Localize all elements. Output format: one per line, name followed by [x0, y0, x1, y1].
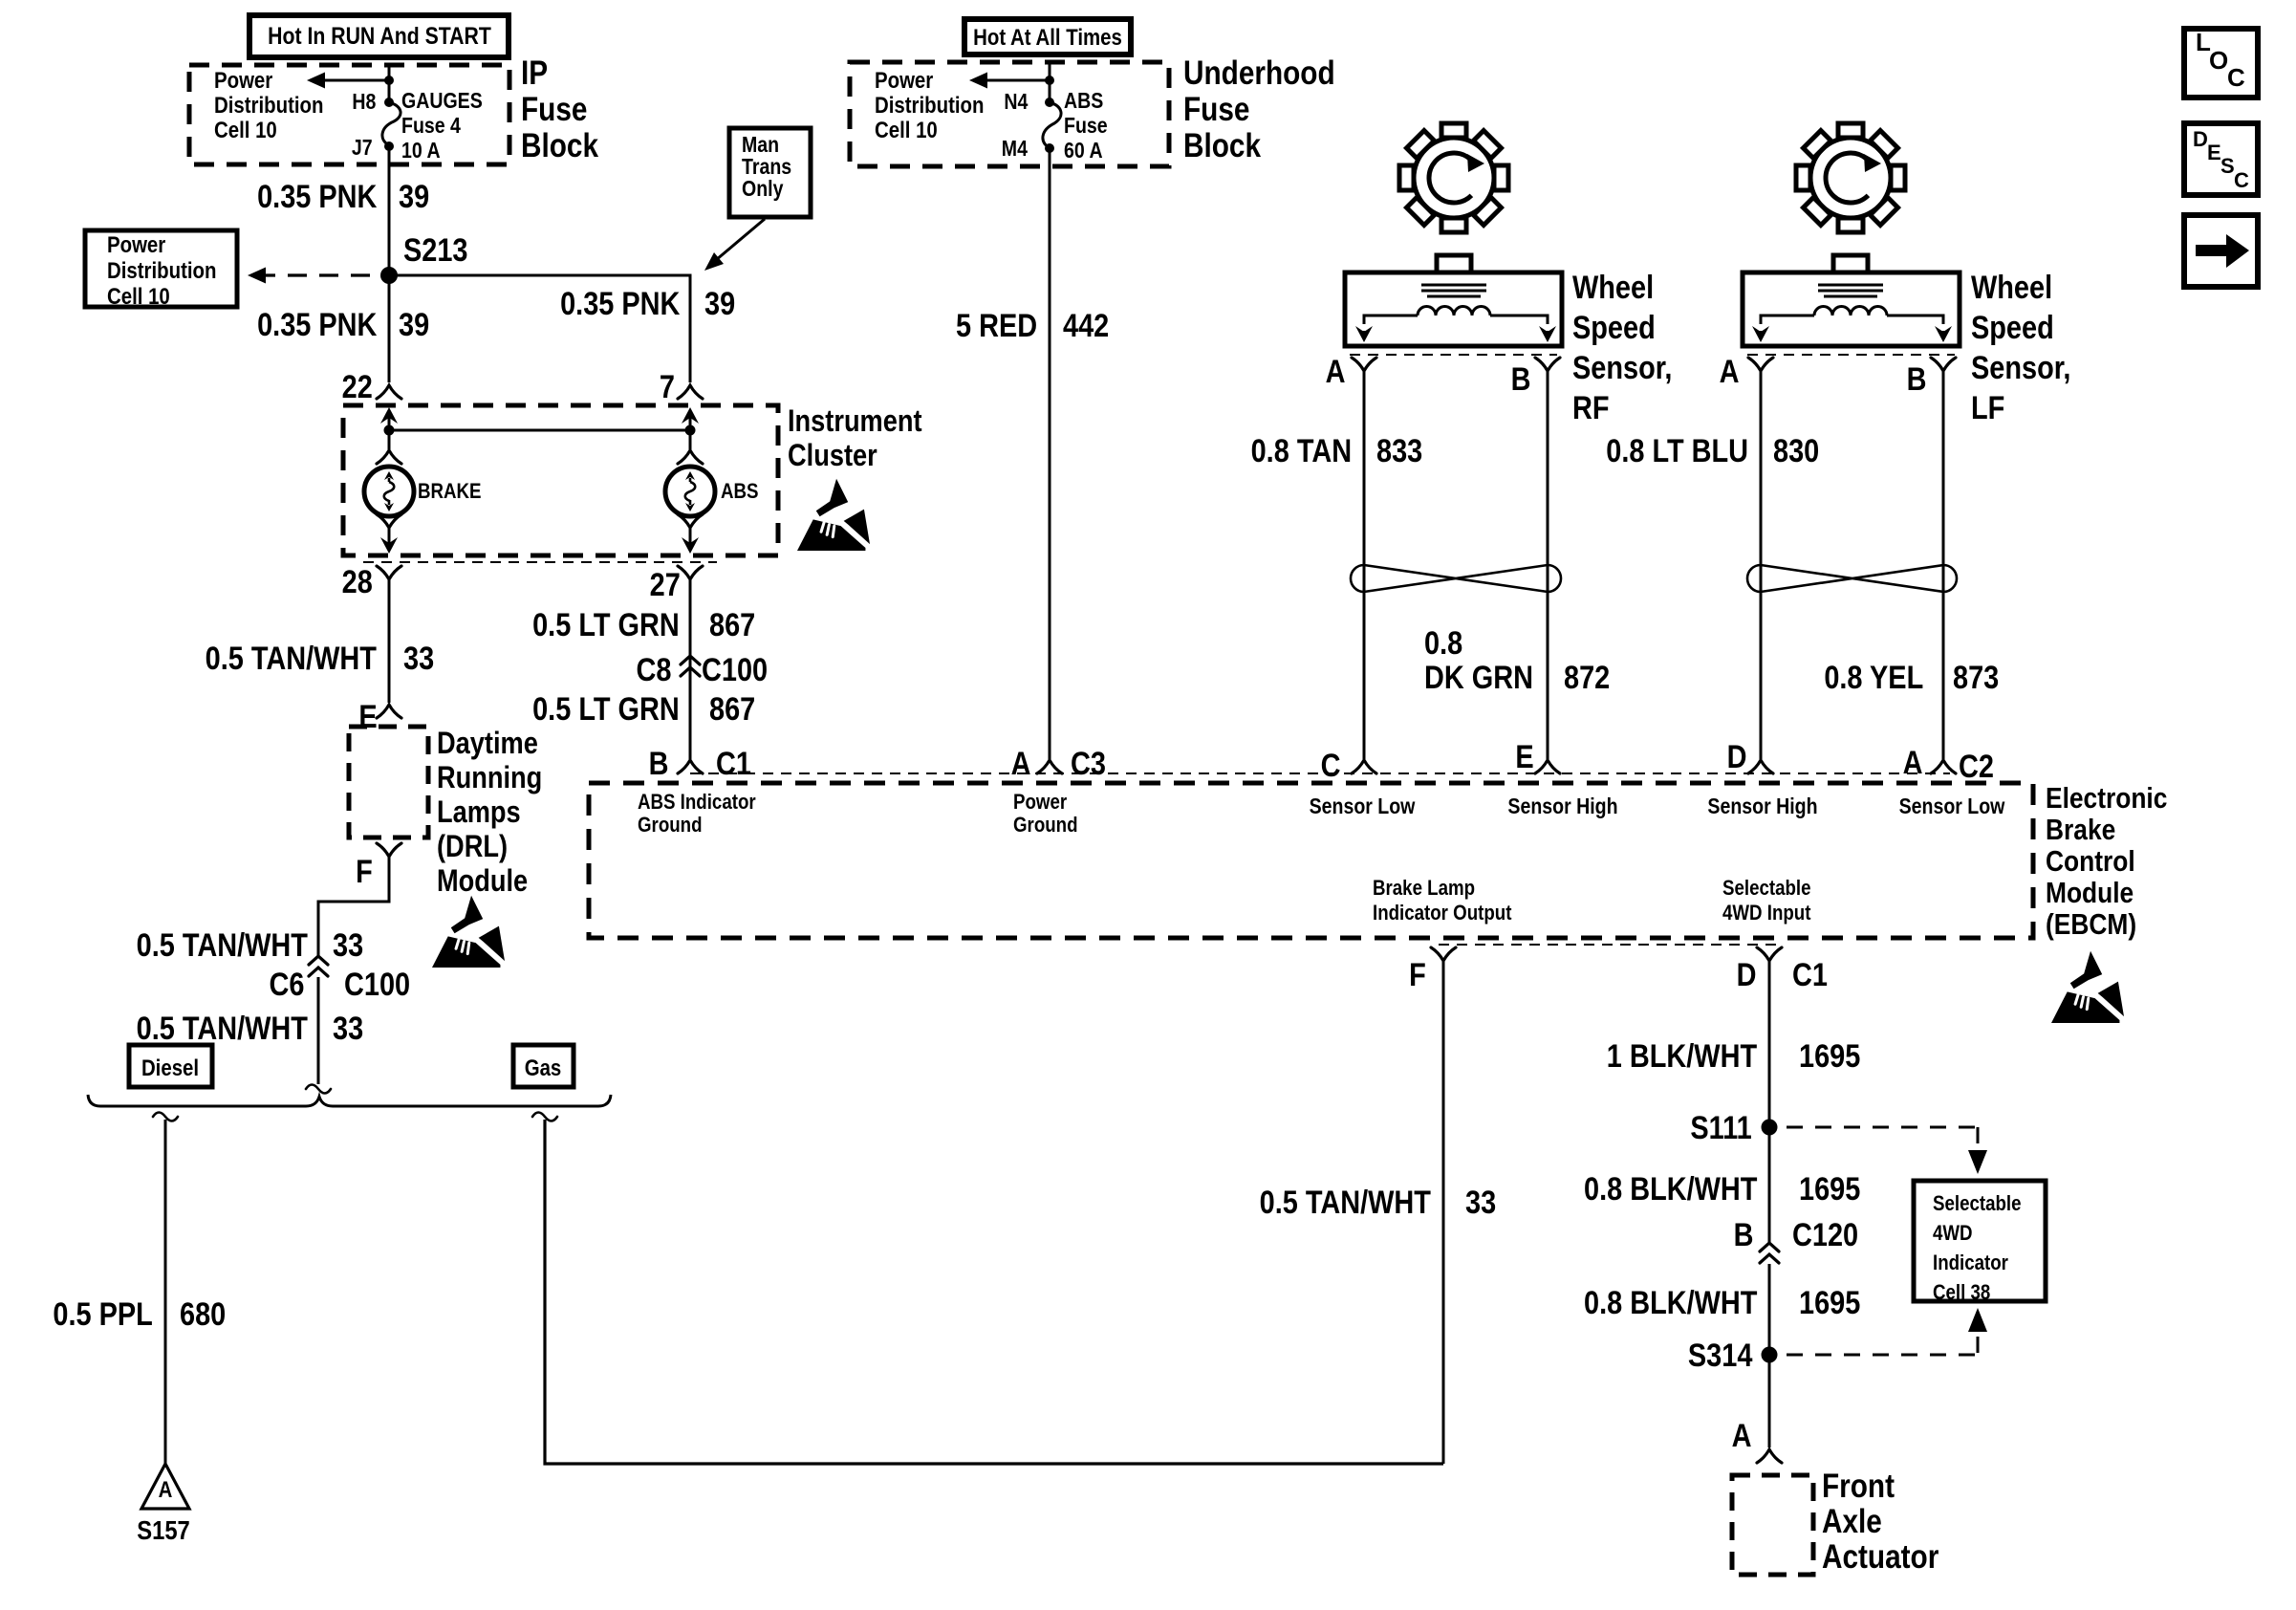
dashed wire S314 to indicator: [1787, 1354, 1978, 1357]
splice label S213: [403, 233, 467, 268]
circuit 680: [180, 1297, 226, 1332]
sensor coil (RF): [1418, 307, 1490, 316]
dashed wire S111 to indicator: [1787, 1126, 1978, 1129]
wire label 1 BLK/WHT: [1607, 1039, 1757, 1074]
sensor pin A arrow (LF): [1752, 326, 1769, 342]
arrow from Man Trans Only to wire: [716, 219, 765, 260]
sensor core lines (LF): [1818, 284, 1883, 287]
sensor pickup tab (RF): [1437, 255, 1471, 272]
sensor internal wiring (RF): [1364, 315, 1418, 324]
arrowhead into indicator box (bottom): [1968, 1308, 1987, 1332]
svg-text:O: O: [2209, 46, 2228, 75]
wire 873 YEL sensor LF low: [1942, 371, 1945, 759]
twisted pair symbol (RF): [1351, 565, 1561, 592]
EBCM function Selectable 4WD Input: [1722, 876, 1811, 925]
tone ring gear (LF): [1796, 123, 1905, 232]
circuit 33 (output): [1465, 1186, 1496, 1220]
EBCM pin C connector: [1352, 760, 1376, 773]
sensor coil (LF): [1814, 307, 1887, 316]
pin 28 connector: [377, 566, 401, 579]
wire to ABS bulb: [689, 430, 692, 449]
arrow to Power Distribution Cell 10: [324, 79, 389, 82]
circuit 39 (above S213): [399, 180, 429, 214]
wire gas drop and run to brake lamp output: [545, 1120, 1443, 1464]
pin label J7: [352, 136, 373, 159]
EBCM top connector dashed line: [690, 772, 1950, 774]
wire 1695 BLK/WHT D to S111: [1768, 961, 1771, 1127]
banner text Hot In RUN And START: [266, 24, 493, 49]
wire 1695 BLK/WHT S314 to front axle: [1768, 1355, 1771, 1447]
wire label 0.5 TAN/WHT (output): [1260, 1186, 1431, 1220]
circuit 33 (above C6): [333, 928, 363, 963]
circuit 1695 (top): [1799, 1039, 1860, 1074]
pin label A (LF): [1720, 355, 1740, 389]
wire ABS bulb to pin 27: [689, 528, 692, 538]
wire label 0.8 BLK/WHT (below C120): [1584, 1286, 1757, 1320]
EBCM pin F connector: [1431, 947, 1456, 961]
cluster bottom connector dashed line: [363, 561, 717, 563]
ESD symbol (instrument cluster): [797, 479, 870, 551]
indicator bulb BRAKE: [364, 467, 414, 516]
circuit 33 (to E): [403, 642, 434, 676]
component name Daytime Running Lamps (DRL) Module: [437, 726, 542, 898]
connector label C6: [269, 968, 304, 1002]
svg-text:D: D: [2193, 127, 2208, 151]
splice S213 dot: [380, 267, 398, 284]
sensor connector dashed line (RF): [1350, 354, 1557, 356]
wire gauges fuse feed (top): [388, 65, 391, 102]
pin label A (EBCM C3): [1011, 747, 1031, 781]
pin F connector: [377, 843, 401, 857]
wire 33 TAN/WHT brake lamp output: [1442, 961, 1445, 1464]
connector label C1 (EBCM bottom): [1792, 958, 1828, 992]
ABS bulb top connector: [678, 450, 703, 464]
wire 33 TAN/WHT below C100: [317, 977, 320, 1084]
EBCM dashed outline: [589, 783, 2033, 938]
pin label E (EBCM): [1516, 740, 1534, 774]
wire label 0.8 LT BLU: [1606, 434, 1748, 468]
wire label 0.5 TAN/WHT (above C6): [137, 928, 308, 963]
connector label C3 (EBCM): [1071, 747, 1106, 781]
splice S111 dot: [1762, 1120, 1778, 1136]
circuit 873: [1953, 661, 1999, 695]
connector label C120: [1792, 1218, 1858, 1252]
sensor pickup tab (LF): [1833, 255, 1868, 272]
circuit 867 (below C8): [709, 692, 755, 727]
pin label 22: [342, 370, 373, 404]
EBCM function Sensor High (D): [1681, 794, 1844, 817]
circuit 33 (below C100): [333, 1012, 363, 1046]
wire 39 PNK from J7 to S213: [388, 146, 391, 275]
fuse label ABS Fuse 60 A: [1064, 88, 1108, 163]
circuit 833: [1376, 434, 1422, 468]
sensor pin B arrow (LF): [1935, 326, 1952, 342]
bulb label BRAKE: [418, 480, 481, 502]
sensor pin B connector (LF): [1931, 358, 1956, 371]
fuse F1 GAUGES Fuse 4 10A element: [382, 102, 401, 145]
pin 27 connector: [678, 566, 703, 579]
sensor pin B arrow (RF): [1539, 326, 1556, 342]
wire 867 LT GRN pin 27 down: [689, 579, 692, 759]
forward arrow navigation box: [2184, 215, 2258, 287]
wire 830 LT BLU sensor LF high: [1760, 371, 1763, 759]
splice S314 dot: [1762, 1347, 1778, 1363]
circuit 39 (right branch): [704, 287, 735, 321]
EBCM function Sensor High (E): [1482, 794, 1644, 817]
pin label F: [356, 855, 373, 889]
circuit 1695 (below C120): [1799, 1286, 1860, 1320]
pin J7 dot: [384, 141, 394, 151]
ground splice triangle S157: [141, 1464, 189, 1509]
Selectable 4WD Indicator Cell 38 box: [1914, 1181, 2046, 1301]
pin H8 dot: [384, 98, 394, 107]
wire label 0.5 LT GRN (above C8): [532, 608, 680, 642]
sensor pin A connector (RF): [1352, 358, 1376, 371]
EBCM function Sensor Low (C2): [1871, 794, 2033, 817]
twisted pair symbol (LF): [1747, 565, 1957, 592]
IP fuse block text Power Distribution Cell 10: [214, 69, 323, 143]
sensor core lines (RF): [1421, 284, 1486, 287]
pin E connector (female): [377, 705, 401, 718]
wire to BRAKE bulb: [388, 430, 391, 449]
EBCM pin A/C2 connector: [1931, 760, 1956, 773]
dashed wire from S213 to Power Distribution: [256, 273, 380, 276]
wire 39 PNK S213 down: [388, 275, 391, 382]
power feed banner box (Hot At All Times): [964, 19, 1131, 54]
EBCM pin D/C1 connector: [1757, 947, 1782, 961]
Instrument Cluster dashed outline: [343, 405, 778, 555]
fuse F4 label GAUGES Fuse 4 10 A: [401, 88, 483, 163]
sensor pin A arrow (RF): [1355, 326, 1373, 342]
component name Underhood Fuse Block: [1183, 55, 1335, 164]
ESD symbol (DRL module): [432, 896, 505, 968]
connector label C1 (EBCM): [716, 747, 751, 781]
splice label S111: [1691, 1111, 1752, 1145]
pin label C (EBCM): [1321, 749, 1341, 783]
pin label 28: [342, 565, 373, 599]
wire label 0.5 TAN/WHT (to E): [206, 642, 377, 676]
wire 833 TAN sensor RF low: [1363, 371, 1366, 759]
BRAKE bulb bottom connector: [377, 514, 401, 528]
wire 1695 BLK/WHT S111 to C120: [1768, 1127, 1771, 1243]
wire 442 RED M4 to EBCM A/C3: [1049, 148, 1051, 759]
wire abs fuse feed (top): [1049, 62, 1051, 102]
wire label 0.35 PNK (right branch): [560, 287, 680, 321]
wire 1695 BLK/WHT C120 to S314: [1768, 1264, 1771, 1355]
wheel speed sensor LF box: [1743, 272, 1960, 346]
sensor pin A connector (LF): [1748, 358, 1773, 371]
wire label 0.5 PPL: [54, 1297, 153, 1332]
svg-text:C: C: [2234, 168, 2249, 192]
pin label 7: [660, 370, 675, 404]
bulb label ABS: [721, 480, 758, 502]
IP Fuse Block dashed outline: [189, 65, 509, 164]
wire label 5 RED: [956, 309, 1037, 343]
text Diesel: [121, 1056, 219, 1080]
Power Distribution Cell 10 reference box: [85, 230, 237, 307]
text Selectable 4WD Indicator Cell 38: [1933, 1188, 2022, 1307]
EBCM pin B/C1 connector: [678, 760, 703, 773]
wire BRAKE bulb to pin 28: [388, 528, 391, 538]
circuit 830: [1773, 434, 1819, 468]
component name Instrument Cluster: [788, 403, 922, 472]
text Man Trans Only: [742, 134, 791, 200]
banner text Hot At All Times: [959, 26, 1137, 50]
component name Front Axle Actuator: [1822, 1469, 1939, 1575]
pin N4 dot: [1045, 98, 1054, 107]
EBCM function Brake Lamp Indicator Output: [1373, 876, 1511, 925]
wire break squiggle (diesel): [153, 1113, 178, 1121]
connector C8/C100 inline: [681, 656, 700, 664]
wire 33 TAN/WHT pin28 to DRL E: [388, 579, 391, 703]
connector C6/C100 inline: [309, 956, 328, 965]
EBCM function Sensor Low (C): [1281, 794, 1443, 817]
component name Electronic Brake Control Module (EBCM): [2046, 782, 2167, 940]
pin label D (EBCM): [1727, 740, 1747, 774]
wire label 0.35 PNK (below S213): [257, 308, 377, 342]
Gas option box: [513, 1045, 574, 1087]
circuit 872: [1564, 661, 1610, 695]
wire label 0.5 LT GRN (below C8): [532, 692, 680, 727]
EBCM pin E connector: [1535, 760, 1560, 773]
triangle label A: [141, 1478, 190, 1502]
pin label H8: [352, 90, 376, 113]
connector C120 inline: [1760, 1243, 1779, 1251]
arrow to Power Distribution Cell 10 (underhood): [986, 79, 1050, 82]
wheel speed sensor RF box: [1345, 272, 1562, 346]
connector label C2 (EBCM): [1959, 750, 1994, 784]
pin label B (C120): [1734, 1218, 1754, 1252]
wire label 0.5 TAN/WHT (below C100): [137, 1012, 308, 1046]
pin label B (LF): [1907, 362, 1927, 397]
wire label 0.8 BLK/WHT (above C120): [1584, 1172, 1757, 1207]
wire 680 PPL diesel drop: [164, 1120, 167, 1464]
EBCM function ABS Indicator Ground: [638, 791, 756, 837]
cluster pin 7 arrow: [682, 407, 699, 424]
pin label 27: [650, 568, 681, 602]
wire 33 TAN/WHT F to C6: [318, 857, 389, 956]
cluster junction dot right: [685, 425, 696, 436]
arrowhead into indicator box (top): [1968, 1150, 1987, 1174]
circuit 442: [1063, 309, 1109, 343]
component name IP Fuse Block: [521, 55, 598, 164]
pin M4 dot: [1045, 143, 1054, 153]
pin label N4: [1004, 90, 1028, 113]
tone ring gear (RF): [1399, 123, 1508, 232]
wire label 0.8 TAN: [1251, 434, 1352, 468]
BRAKE bulb top connector: [377, 450, 401, 464]
cluster junction dot left: [384, 425, 395, 436]
connector label C100 (at C8): [702, 653, 768, 687]
pin label M4: [1002, 137, 1028, 160]
wire label 0.8 YEL: [1824, 661, 1923, 695]
pin label F (EBCM): [1409, 958, 1426, 992]
pin label D (EBCM C1 bottom): [1737, 958, 1757, 992]
cluster internal bus wire: [389, 429, 690, 432]
Diesel option box: [129, 1045, 212, 1087]
wire break squiggle (center): [306, 1085, 331, 1094]
pin label E: [359, 700, 378, 734]
fuse ABS 60A element: [1043, 102, 1061, 148]
ABS bulb bottom connector: [678, 514, 703, 528]
wire 39 PNK S213 branch right: [389, 275, 690, 382]
underhood block text Power Distribution Cell 10: [875, 69, 984, 143]
Underhood Fuse Block dashed outline: [850, 62, 1169, 166]
pin label A (front axle): [1732, 1419, 1752, 1453]
wire break squiggle (gas): [532, 1113, 557, 1121]
connector label C100: [344, 968, 410, 1002]
pin label A (EBCM C2): [1903, 746, 1923, 780]
LOC navigation box: [2184, 29, 2258, 98]
indicator bulb ABS: [665, 467, 715, 516]
wire label 0.8 DK GRN: [1424, 626, 1533, 695]
component name Wheel Speed Sensor LF: [1971, 268, 2070, 428]
EBCM bottom connector dashed line: [1439, 944, 1780, 946]
ESD symbol (EBCM): [2051, 951, 2124, 1023]
text Power Distribution Cell 10 (reference): [107, 232, 216, 310]
Man Trans Only note box: [729, 128, 811, 217]
component name Wheel Speed Sensor RF: [1572, 268, 1672, 428]
svg-text:E: E: [2207, 141, 2221, 164]
cluster pin 22 arrow: [380, 407, 398, 424]
svg-text:S: S: [2220, 154, 2235, 178]
sensor internal wiring (LF): [1761, 315, 1814, 324]
front axle pin A connector: [1757, 1449, 1782, 1463]
pin label B (EBCM C1): [649, 747, 669, 781]
circuit 867 (above C8): [709, 608, 755, 642]
Front Axle Actuator dashed outline: [1732, 1475, 1813, 1575]
DESC navigation box: [2184, 123, 2258, 195]
power feed banner box (Hot In RUN And START): [249, 15, 509, 57]
svg-text:C: C: [2227, 63, 2245, 92]
EBCM pin D connector: [1748, 760, 1773, 773]
pin 7 connector (female): [678, 385, 703, 399]
splice label S314: [1688, 1338, 1752, 1373]
text Gas: [503, 1056, 584, 1080]
EBCM pin A/C3 connector: [1037, 760, 1062, 773]
wire 872 DK GRN sensor RF high: [1547, 371, 1549, 759]
circuit 1695 (above C120): [1799, 1172, 1860, 1207]
wire label 0.35 PNK (above S213): [257, 180, 377, 214]
EBCM function Power Ground: [1013, 791, 1078, 837]
connector label C8: [636, 653, 671, 687]
pin label A (RF): [1326, 355, 1346, 389]
circuit 39 (below S213): [399, 308, 429, 342]
pin label B (RF): [1511, 362, 1531, 397]
DRL Module dashed outline: [349, 727, 428, 838]
sensor connector dashed line (LF): [1747, 354, 1955, 356]
sensor pin B connector (RF): [1535, 358, 1560, 371]
split bracket (brace): [88, 1095, 611, 1106]
pin 22 connector (female): [377, 385, 401, 399]
splice label S157: [115, 1516, 212, 1545]
